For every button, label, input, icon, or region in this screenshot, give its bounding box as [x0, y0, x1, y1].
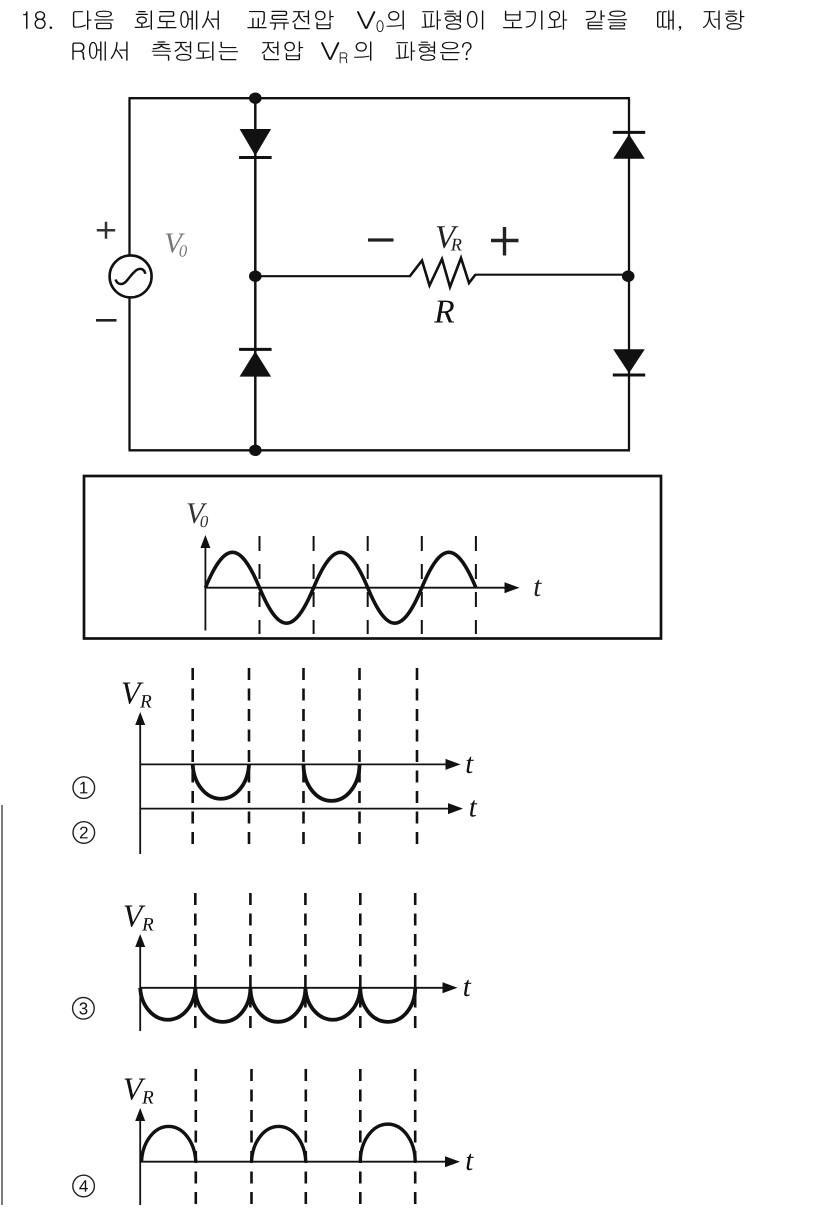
wire bottom rail — [129, 449, 631, 451]
label VR option3 — [125, 906, 154, 931]
option2 circled 2 — [73, 822, 95, 844]
question line 1 text — [23, 10, 745, 32]
label V0 in box — [188, 503, 209, 527]
minus sign at resistor — [368, 238, 394, 241]
plus sign at resistor — [491, 227, 519, 256]
option3 V axis — [139, 945, 141, 1031]
node top junction — [249, 93, 262, 104]
option1 t axis — [140, 763, 448, 765]
option1 waveform bumps — [193, 764, 360, 801]
diode D1 top-left (down) — [240, 129, 272, 156]
ac source V0 circle — [110, 255, 152, 297]
diode D3 top-right (up) — [613, 134, 645, 159]
option1-2 dashed gridlines — [193, 668, 417, 849]
label VR option1 — [123, 683, 152, 708]
label VR above resistor — [437, 226, 462, 250]
wire right rail — [628, 98, 630, 450]
option4 dashed gridlines — [196, 1069, 415, 1205]
wire top rail — [129, 97, 631, 99]
option4 waveform bumps — [142, 1124, 416, 1162]
box dashed gridlines — [260, 536, 476, 634]
label t option2 — [470, 800, 477, 817]
node bottom junction — [249, 445, 262, 456]
resistor R zigzag — [410, 258, 476, 287]
wire resistor right lead — [475, 274, 629, 276]
label t in box — [535, 580, 542, 597]
node mid-left junction — [249, 271, 262, 282]
label V0 at source — [166, 234, 187, 257]
box V axis — [204, 546, 206, 631]
question line 2 text — [72, 41, 471, 63]
diode D2 bottom-left (up) — [240, 351, 272, 376]
box sine waveform — [205, 552, 476, 623]
scan margin line — [1, 805, 3, 1205]
wire resistor left lead — [255, 275, 411, 277]
label t option3 — [464, 980, 471, 997]
minus sign at source — [96, 319, 117, 322]
option3 dashed gridlines — [195, 893, 415, 1031]
label t option4 — [467, 1154, 474, 1171]
option3 circled 3 — [73, 998, 95, 1020]
option4 V axis — [139, 1119, 141, 1205]
option2 t axis — [140, 808, 451, 810]
diode D4 bottom-right (down) — [613, 349, 645, 373]
label t option1 — [467, 757, 474, 774]
node mid-right junction — [622, 271, 635, 282]
box t axis — [205, 587, 507, 589]
ac source sine symbol — [116, 269, 146, 284]
label R below resistor — [434, 301, 454, 323]
example waveform box — [84, 476, 661, 639]
option4 t axis — [140, 1161, 448, 1163]
option4 circled 4 — [73, 1175, 95, 1197]
label VR option4 — [125, 1079, 154, 1104]
wire mid-left branch — [254, 98, 257, 450]
wire left rail lower — [128, 297, 130, 450]
wire left rail upper — [128, 98, 130, 256]
option1 circled 1 — [73, 777, 95, 799]
option1 V axis — [139, 723, 141, 854]
plus sign at source — [97, 222, 115, 239]
option3 waveform bumps — [140, 988, 415, 1022]
option3 t axis — [140, 987, 445, 989]
